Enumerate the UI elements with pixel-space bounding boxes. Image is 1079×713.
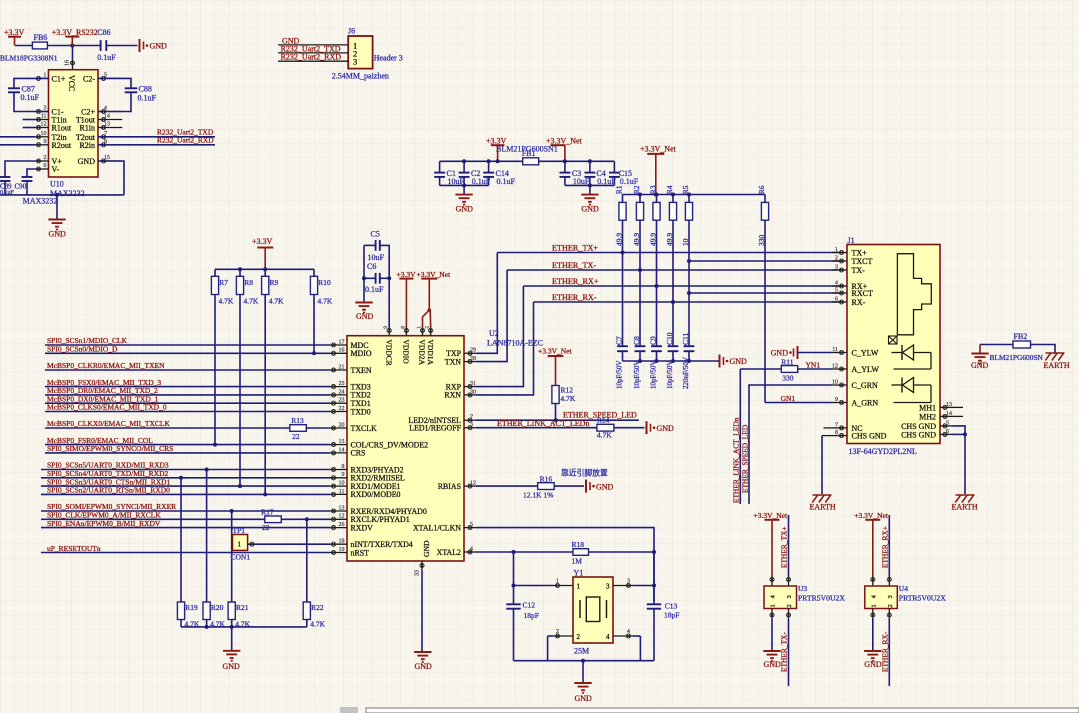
- svg-text:R5: R5: [681, 185, 690, 194]
- svg-text:4: 4: [627, 629, 630, 635]
- svg-text:ETHER_RX+: ETHER_RX+: [880, 526, 889, 568]
- svg-text:ETHER_RX-: ETHER_RX-: [552, 293, 597, 302]
- svg-text:SPI0_ENAn/EPWM0_B/MII_RXDV: SPI0_ENAn/EPWM0_B/MII_RXDV: [47, 519, 161, 528]
- svg-text:0.1uF: 0.1uF: [597, 177, 616, 186]
- svg-text:Y1: Y1: [574, 569, 584, 578]
- svg-text:3: 3: [470, 422, 473, 428]
- svg-text:25M: 25M: [574, 647, 589, 656]
- svg-text:R17: R17: [261, 508, 274, 517]
- svg-text:10pF/50V: 10pF/50V: [633, 361, 641, 389]
- svg-text:ETHER_TX-: ETHER_TX-: [552, 261, 596, 270]
- svg-text:+3.3V_Net: +3.3V_Net: [538, 346, 573, 355]
- svg-text:U4: U4: [899, 584, 908, 593]
- svg-text:GND: GND: [422, 540, 431, 557]
- svg-text:GND: GND: [415, 662, 433, 671]
- svg-text:MH2: MH2: [919, 412, 936, 421]
- svg-text:+3.3V: +3.3V: [486, 137, 507, 146]
- svg-text:2: 2: [577, 633, 581, 641]
- svg-text:4: 4: [470, 546, 473, 552]
- svg-text:XTAL2: XTAL2: [437, 548, 461, 557]
- svg-text:MAX3232: MAX3232: [23, 197, 58, 206]
- svg-text:GND: GND: [596, 482, 614, 491]
- svg-text:EARTH: EARTH: [1044, 361, 1070, 370]
- svg-text:C2-: C2-: [83, 74, 95, 83]
- svg-text:14: 14: [104, 114, 110, 120]
- svg-text:C88: C88: [139, 85, 152, 94]
- svg-text:4: 4: [606, 633, 610, 641]
- svg-text:TXD0: TXD0: [351, 407, 371, 416]
- svg-text:24: 24: [339, 389, 345, 395]
- svg-text:ETHER_RX+: ETHER_RX+: [552, 277, 599, 286]
- svg-text:R22: R22: [311, 603, 324, 612]
- svg-text:FB2: FB2: [1014, 332, 1028, 341]
- svg-text:10uF: 10uF: [573, 177, 590, 186]
- svg-text:R8: R8: [244, 278, 253, 287]
- svg-text:10: 10: [832, 379, 838, 385]
- svg-text:GND: GND: [356, 312, 374, 321]
- svg-text:C5: C5: [371, 229, 380, 238]
- svg-text:+3.3V: +3.3V: [397, 270, 417, 279]
- svg-text:RXD0/MODE0: RXD0/MODE0: [351, 490, 401, 499]
- svg-text:+3.3V_Net: +3.3V_Net: [754, 511, 789, 520]
- svg-text:XTAL1/CLKN: XTAL1/CLKN: [413, 523, 461, 532]
- svg-text:10: 10: [41, 131, 47, 137]
- svg-text:1: 1: [870, 604, 877, 607]
- svg-text:12: 12: [339, 514, 345, 520]
- svg-text:VDD2A: VDD2A: [418, 340, 427, 366]
- svg-text:CON1: CON1: [231, 553, 251, 562]
- svg-text:18: 18: [339, 539, 345, 545]
- svg-text:4.7K: 4.7K: [269, 296, 284, 305]
- svg-text:R6: R6: [757, 185, 766, 194]
- svg-text:0.1uF: 0.1uF: [472, 177, 491, 186]
- svg-text:7: 7: [470, 415, 473, 421]
- svg-text:TXCLK: TXCLK: [351, 424, 378, 433]
- svg-text:靠近引脚放置: 靠近引脚放置: [561, 467, 608, 477]
- svg-text:0.1uF: 0.1uF: [620, 177, 639, 186]
- svg-text:2: 2: [556, 629, 559, 635]
- svg-text:R11: R11: [781, 357, 793, 366]
- svg-text:C_YLW: C_YLW: [852, 348, 879, 357]
- svg-text:VDDIO: VDDIO: [402, 340, 411, 365]
- svg-text:15: 15: [339, 439, 345, 445]
- svg-text:9: 9: [44, 139, 47, 145]
- svg-text:R2: R2: [632, 185, 641, 194]
- svg-text:9: 9: [342, 472, 345, 478]
- svg-text:GND: GND: [771, 349, 789, 358]
- svg-text:EARTH: EARTH: [810, 503, 836, 512]
- svg-text:25: 25: [339, 381, 345, 387]
- svg-text:C1+: C1+: [52, 74, 66, 83]
- svg-text:17: 17: [339, 339, 345, 345]
- svg-text:4.7K: 4.7K: [219, 296, 234, 305]
- svg-text:R2out: R2out: [52, 141, 72, 150]
- svg-text:R4: R4: [665, 185, 674, 194]
- svg-text:LAN8710A-EZC: LAN8710A-EZC: [487, 339, 543, 348]
- svg-text:ETHER_RX-: ETHER_RX-: [880, 631, 889, 672]
- svg-text:21: 21: [339, 364, 345, 370]
- svg-text:14: 14: [946, 411, 952, 417]
- svg-text:+3.3V_Net: +3.3V_Net: [546, 137, 583, 146]
- svg-text:12: 12: [41, 122, 47, 128]
- svg-text:330: 330: [782, 374, 794, 383]
- svg-text:6: 6: [400, 326, 406, 329]
- svg-text:12: 12: [832, 363, 838, 369]
- svg-text:R19: R19: [185, 603, 198, 612]
- svg-text:RX-: RX-: [852, 298, 866, 307]
- svg-text:BLM18PG3308N1: BLM18PG3308N1: [0, 53, 58, 62]
- svg-text:A_YLW: A_YLW: [852, 365, 880, 374]
- svg-text:19: 19: [339, 547, 345, 553]
- svg-text:+3.3V_Net: +3.3V_Net: [640, 145, 677, 154]
- svg-text:R18: R18: [572, 540, 585, 549]
- svg-text:C_GRN: C_GRN: [852, 381, 878, 390]
- svg-text:13: 13: [946, 402, 952, 408]
- svg-text:GND: GND: [223, 662, 241, 671]
- svg-text:R1in: R1in: [79, 124, 95, 133]
- svg-text:0.1uF: 0.1uF: [138, 94, 157, 103]
- svg-text:BLM21PG600SN1: BLM21PG600SN1: [496, 144, 558, 153]
- svg-text:SPI0_SIMO/EPWM0_SYNCO/MII_CRS: SPI0_SIMO/EPWM0_SYNCO/MII_CRS: [47, 444, 173, 453]
- svg-text:GND: GND: [581, 205, 599, 214]
- svg-text:18pF: 18pF: [524, 611, 539, 620]
- svg-text:5: 5: [470, 522, 473, 528]
- svg-text:3: 3: [835, 264, 838, 270]
- svg-text:3: 3: [353, 57, 357, 67]
- svg-text:GND: GND: [971, 361, 989, 370]
- svg-text:1M: 1M: [572, 557, 583, 566]
- svg-text:1: 1: [417, 326, 423, 329]
- svg-text:GND: GND: [78, 157, 96, 166]
- svg-text:McBSP0_CLKX0/EMAC_MII_TXCLK: McBSP0_CLKX0/EMAC_MII_TXCLK: [47, 419, 171, 428]
- svg-text:+3.3V: +3.3V: [252, 237, 273, 246]
- svg-text:ETHER_TX+: ETHER_TX+: [780, 526, 789, 568]
- svg-text:14: 14: [339, 447, 345, 453]
- svg-text:0.1uF: 0.1uF: [365, 285, 384, 294]
- svg-text:R10: R10: [318, 278, 331, 287]
- svg-text:6: 6: [835, 296, 838, 302]
- svg-text:RXN: RXN: [444, 391, 461, 400]
- svg-text:10pF/50V: 10pF/50V: [666, 361, 674, 389]
- svg-text:MH1: MH1: [919, 403, 936, 412]
- svg-text:ETHER_SPEED_LED: ETHER_SPEED_LED: [741, 424, 750, 493]
- svg-text:ETHER_TX+: ETHER_TX+: [552, 243, 598, 252]
- svg-text:R1out: R1out: [52, 124, 72, 133]
- svg-text:1: 1: [556, 579, 559, 585]
- svg-text:RBIAS: RBIAS: [438, 482, 461, 491]
- svg-text:0.1uF: 0.1uF: [497, 177, 516, 186]
- svg-text:49.9: 49.9: [665, 233, 674, 246]
- svg-text:ETHER_TX-: ETHER_TX-: [780, 632, 789, 672]
- svg-text:10uF: 10uF: [448, 177, 465, 186]
- svg-text:R7: R7: [219, 278, 228, 287]
- svg-text:1: 1: [238, 541, 242, 549]
- svg-text:TXEN: TXEN: [351, 366, 372, 375]
- svg-text:220nF/50V: 220nF/50V: [682, 357, 690, 389]
- svg-text:U3: U3: [798, 584, 807, 593]
- svg-text:49.9: 49.9: [615, 233, 624, 246]
- svg-text:McBSP0_CLKS0/EMAC_MII_TXD_0: McBSP0_CLKS0/EMAC_MII_TXD_0: [47, 403, 167, 412]
- svg-text:10uF: 10uF: [368, 253, 385, 262]
- svg-text:J6: J6: [348, 27, 355, 36]
- svg-text:C6: C6: [367, 262, 376, 271]
- svg-text:0.1uF: 0.1uF: [0, 190, 15, 196]
- svg-text:C10: C10: [665, 332, 674, 345]
- svg-text:C90: C90: [15, 183, 27, 191]
- svg-text:30: 30: [470, 389, 476, 395]
- svg-text:VDD1A: VDD1A: [426, 340, 435, 366]
- svg-text:R20: R20: [211, 603, 224, 612]
- svg-text:+3.3V_Net: +3.3V_Net: [854, 511, 889, 520]
- svg-text:GND: GND: [864, 660, 882, 669]
- svg-text:VDDCR: VDDCR: [384, 340, 393, 366]
- svg-text:20: 20: [339, 422, 345, 428]
- svg-text:CHS GND: CHS GND: [852, 432, 887, 441]
- svg-text:SPI0_SCSn2/UART0_RTSn/MII_RXD0: SPI0_SCSn2/UART0_RTSn/MII_RXD0: [47, 486, 170, 495]
- svg-text:8: 8: [835, 430, 838, 436]
- svg-text:16: 16: [65, 60, 71, 66]
- svg-text:3: 3: [627, 579, 630, 585]
- svg-text:J1: J1: [848, 236, 855, 245]
- svg-text:330: 330: [757, 235, 766, 247]
- svg-text:13F-64GYD2PL2NL: 13F-64GYD2PL2NL: [849, 447, 918, 456]
- svg-text:4: 4: [835, 280, 838, 286]
- svg-text:R232_Uart2_RXD: R232_Uart2_RXD: [281, 53, 342, 62]
- svg-text:CRS: CRS: [351, 449, 366, 458]
- svg-text:11: 11: [339, 489, 345, 495]
- svg-text:18pF: 18pF: [664, 611, 679, 620]
- svg-text:2: 2: [786, 604, 793, 607]
- svg-text:49.9: 49.9: [649, 233, 658, 246]
- svg-text:4.7K: 4.7K: [597, 430, 612, 439]
- svg-text:13: 13: [339, 505, 345, 511]
- svg-text:29: 29: [470, 348, 476, 354]
- svg-text:C7: C7: [615, 336, 624, 345]
- svg-text:VCC: VCC: [67, 75, 76, 91]
- svg-text:ETHER_LINK_ACT_LEDn: ETHER_LINK_ACT_LEDn: [732, 417, 741, 503]
- svg-text:5: 5: [946, 420, 949, 426]
- svg-text:TP1: TP1: [233, 526, 246, 535]
- svg-text:4.7K: 4.7K: [561, 394, 576, 403]
- svg-text:R232_Uart2_RXD: R232_Uart2_RXD: [157, 136, 214, 145]
- svg-text:FB6: FB6: [34, 33, 48, 42]
- svg-text:C12: C12: [523, 601, 536, 610]
- svg-text:TXN: TXN: [445, 357, 462, 366]
- svg-text:PRTR5V0U2X: PRTR5V0U2X: [798, 594, 845, 603]
- svg-text:Header 3: Header 3: [374, 53, 403, 62]
- svg-text:49.9: 49.9: [632, 233, 641, 246]
- svg-text:1: 1: [577, 583, 581, 591]
- svg-text:YN1: YN1: [806, 360, 821, 369]
- svg-text:10: 10: [681, 238, 690, 246]
- svg-text:TX-: TX-: [852, 266, 866, 275]
- svg-text:8: 8: [342, 464, 345, 470]
- svg-text:R1: R1: [615, 185, 624, 194]
- svg-text:GN1: GN1: [781, 394, 796, 403]
- svg-text:1: 1: [770, 604, 777, 607]
- svg-text:C8: C8: [632, 336, 641, 345]
- svg-text:R13: R13: [291, 416, 304, 425]
- svg-text:23: 23: [339, 398, 345, 404]
- svg-text:0.1uF: 0.1uF: [97, 53, 116, 62]
- svg-text:A_GRN: A_GRN: [852, 398, 879, 407]
- svg-text:5: 5: [835, 287, 838, 293]
- svg-text:2: 2: [425, 326, 431, 329]
- svg-text:CHS GND: CHS GND: [901, 430, 936, 439]
- svg-text:BLM21PG600SN: BLM21PG600SN: [990, 353, 1044, 362]
- svg-text:6: 6: [44, 163, 47, 169]
- svg-text:GND: GND: [150, 42, 168, 51]
- svg-text:3: 3: [887, 595, 894, 598]
- svg-text:4.7K: 4.7K: [244, 296, 259, 305]
- svg-text:4.7K: 4.7K: [318, 296, 333, 305]
- svg-text:16: 16: [339, 348, 345, 354]
- svg-text:3: 3: [786, 595, 793, 598]
- svg-text:RXDV: RXDV: [351, 523, 374, 532]
- svg-text:31: 31: [470, 381, 476, 387]
- svg-text:nRST: nRST: [351, 548, 370, 557]
- svg-text:+3.3V_Net: +3.3V_Net: [417, 270, 452, 279]
- svg-text:LED1/REGOFF: LED1/REGOFF: [409, 424, 461, 433]
- svg-text:C9: C9: [649, 336, 658, 345]
- svg-text:SPI0_SCSn0/MDIO_D: SPI0_SCSn0/MDIO_D: [47, 345, 118, 354]
- svg-text:uP_RESETOUTn: uP_RESETOUTn: [47, 544, 101, 553]
- svg-text:R21: R21: [236, 603, 249, 612]
- svg-text:10: 10: [339, 481, 345, 487]
- svg-text:R3: R3: [649, 185, 658, 194]
- svg-text:C11: C11: [681, 333, 690, 345]
- svg-text:7: 7: [835, 422, 838, 428]
- svg-text:GND: GND: [730, 357, 748, 366]
- svg-text:GND: GND: [49, 230, 67, 239]
- svg-text:22: 22: [339, 406, 345, 412]
- svg-text:GND: GND: [456, 205, 474, 214]
- svg-text:3: 3: [606, 583, 610, 591]
- svg-text:10pF/50V: 10pF/50V: [650, 361, 658, 389]
- svg-text:13: 13: [104, 122, 110, 128]
- svg-text:R14: R14: [597, 415, 610, 424]
- svg-text:22: 22: [292, 432, 300, 441]
- svg-text:PRTR5V0U2X: PRTR5V0U2X: [899, 594, 946, 603]
- svg-text:V-: V-: [52, 165, 60, 174]
- svg-text:EARTH: EARTH: [952, 503, 978, 512]
- svg-text:12.1K 1%: 12.1K 1%: [523, 490, 553, 499]
- svg-text:ETHER_LINK_ACT_LEDn: ETHER_LINK_ACT_LEDn: [497, 419, 589, 428]
- svg-text:2.54MM_paizhen: 2.54MM_paizhen: [332, 72, 389, 81]
- svg-text:GND: GND: [575, 694, 593, 703]
- svg-text:+3.3V: +3.3V: [4, 28, 25, 37]
- svg-text:4.7K: 4.7K: [310, 619, 325, 628]
- svg-text:12: 12: [470, 481, 476, 487]
- svg-text:33: 33: [415, 570, 421, 576]
- svg-text:0.1uF: 0.1uF: [21, 93, 40, 102]
- svg-text:10pF/50V: 10pF/50V: [616, 361, 624, 389]
- svg-text:McBSP0_CLKR0/EMAC_MII_TXEN: McBSP0_CLKR0/EMAC_MII_TXEN: [47, 361, 165, 370]
- svg-text:C13: C13: [665, 602, 678, 611]
- svg-text:26: 26: [339, 522, 345, 528]
- svg-text:2: 2: [44, 155, 47, 161]
- svg-text:TXCT: TXCT: [852, 257, 873, 266]
- svg-text:11: 11: [41, 114, 47, 120]
- svg-text:R16: R16: [540, 474, 553, 483]
- svg-text:2: 2: [887, 604, 894, 607]
- svg-text:C86: C86: [97, 28, 110, 37]
- svg-text:U10: U10: [50, 180, 64, 189]
- svg-text:9: 9: [383, 326, 389, 329]
- svg-text:6: 6: [946, 429, 949, 435]
- svg-text:9: 9: [835, 397, 838, 403]
- svg-text:28: 28: [470, 356, 476, 362]
- svg-text:R2in: R2in: [79, 141, 95, 150]
- svg-text:11: 11: [832, 347, 838, 353]
- svg-text:2: 2: [835, 255, 838, 261]
- svg-text:RXCT: RXCT: [852, 289, 873, 298]
- svg-text:R9: R9: [270, 278, 279, 287]
- svg-text:MDIO: MDIO: [351, 349, 372, 358]
- svg-text:GND: GND: [764, 660, 782, 669]
- svg-text:1: 1: [835, 247, 838, 253]
- svg-text:GND: GND: [657, 424, 675, 433]
